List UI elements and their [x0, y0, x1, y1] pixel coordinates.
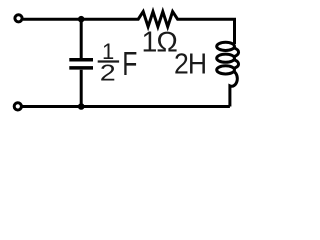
svg-text:F: F: [122, 47, 137, 83]
svg-text:2: 2: [100, 59, 116, 86]
svg-text:2H: 2H: [174, 48, 206, 80]
svg-text:1Ω: 1Ω: [142, 27, 178, 59]
